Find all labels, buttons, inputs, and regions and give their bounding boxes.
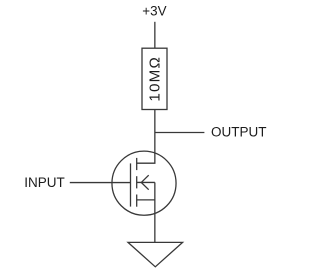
transistor Q1 channel segment top: [136, 158, 138, 170]
resistor R1 value 10MΩ: [146, 56, 163, 102]
transistor Q1 body arrow: [141, 175, 148, 190]
ground symbol: [128, 242, 183, 266]
transistor Q1 channel segment middle: [136, 176, 138, 188]
wire output node: [155, 132, 205, 134]
transistor Q1 gate plate: [130, 163, 132, 206]
transistor Q1 body terminal wire: [137, 181, 155, 183]
transistor Q1 source terminal: [137, 199, 155, 201]
wire +3V to resistor R1 top: [154, 22, 156, 48]
node INPUT label: [24, 175, 65, 190]
wire source to ground: [154, 182, 156, 242]
svg-text:OUTPUT: OUTPUT: [211, 124, 267, 139]
svg-text:10MΩ: 10MΩ: [146, 56, 163, 102]
node +3V label: [142, 4, 166, 19]
wire R1 bottom to transistor Q1 drain: [137, 110, 155, 164]
node OUTPUT label: [211, 124, 267, 139]
transistor Q1 body circle: [112, 151, 176, 215]
wire INPUT to gate: [70, 182, 131, 184]
resistor R1 body: [142, 48, 167, 109]
svg-text:+3V: +3V: [142, 4, 166, 19]
transistor Q1 channel segment bottom: [136, 195, 138, 207]
svg-text:INPUT: INPUT: [24, 175, 65, 190]
